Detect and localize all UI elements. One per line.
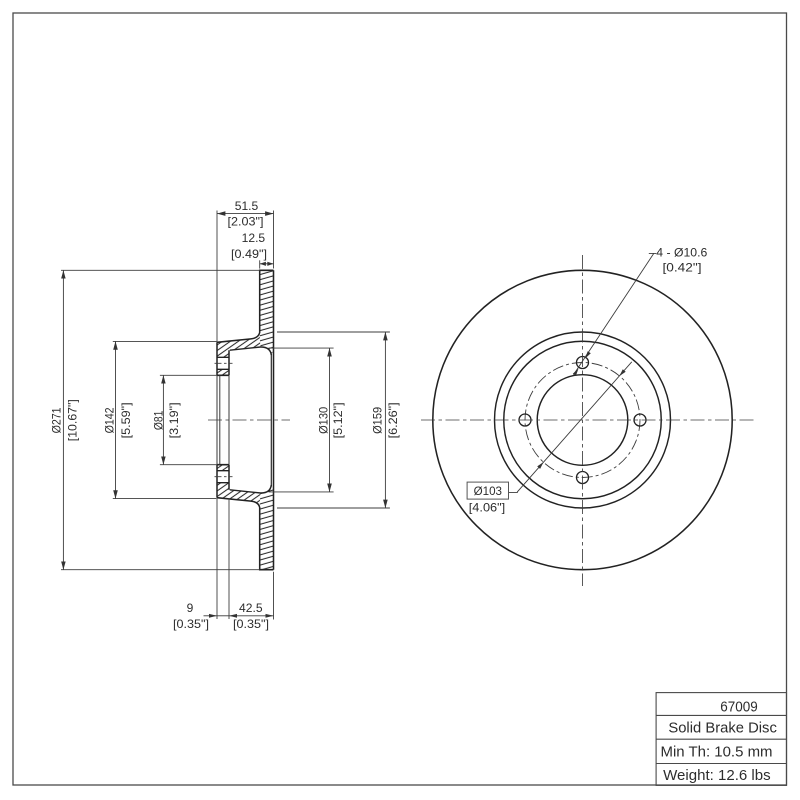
bolt hole edges bottom	[217, 471, 229, 483]
svg-text:[6.26"]: [6.26"]	[386, 402, 400, 438]
extension Ø159 bottom	[277, 507, 390, 509]
extension line mounting face x217	[216, 211, 218, 343]
svg-text:[0.42"]: [0.42"]	[663, 260, 702, 274]
svg-text:Ø159: Ø159	[370, 407, 384, 434]
disc outboard inner edge line	[270, 354, 272, 487]
leader 4-Ø10.6	[574, 253, 657, 374]
hatch hat and flange bottom	[217, 483, 261, 508]
svg-text:[0.35"]: [0.35"]	[173, 617, 209, 631]
flange circle Ø142	[504, 341, 662, 499]
extension Ø81 top	[160, 374, 217, 376]
svg-text:[5.59"]: [5.59"]	[119, 402, 133, 438]
extension line disc outboard x273.5	[273, 211, 275, 269]
svg-text:Min Th: 10.5 mm: Min Th: 10.5 mm	[661, 745, 773, 761]
bolt hole centerline bottom	[215, 476, 233, 478]
dimension Ø271	[62, 270, 64, 569]
leader Ø103	[509, 362, 632, 493]
svg-text:[5.12"]: [5.12"]	[331, 402, 345, 438]
arrows 42.5	[229, 614, 237, 618]
hatch flange top below bolt hole	[217, 369, 229, 375]
extension Ø81 bottom	[160, 464, 217, 466]
svg-text:12.5: 12.5	[242, 231, 266, 245]
svg-text:[4.06"]: [4.06"]	[469, 500, 506, 514]
extension Ø142 top	[113, 340, 217, 342]
bolt hole edges top	[217, 357, 229, 369]
dimension line 9 tail	[204, 615, 218, 617]
mounting face line through bore	[216, 375, 218, 464]
svg-text:51.5: 51.5	[235, 199, 259, 213]
dimension 12.5	[260, 263, 274, 265]
dimension Ø130	[329, 348, 331, 492]
svg-text:Solid Brake Disc: Solid Brake Disc	[668, 721, 777, 737]
extension Ø271 bottom	[61, 569, 260, 571]
section centerline	[208, 419, 290, 421]
bolt hole right	[634, 414, 646, 426]
hatch hat and flange top	[217, 333, 261, 358]
dimension Ø159	[384, 332, 386, 508]
extension Ø130 bottom	[269, 491, 334, 493]
bolt hole top	[577, 357, 589, 369]
svg-text:4 - Ø10.6: 4 - Ø10.6	[656, 246, 707, 260]
arrows 12.5	[260, 262, 266, 266]
label box Ø103	[467, 482, 508, 499]
dimension Ø142	[115, 341, 117, 498]
svg-text:[3.19"]: [3.19"]	[167, 402, 181, 438]
bolt hole centerline top	[215, 362, 233, 364]
bolt hole left	[519, 414, 531, 426]
hatch disc ring bottom	[260, 487, 274, 570]
dimension line 9 middle	[217, 615, 229, 617]
horizontal centerline	[421, 419, 757, 421]
hat outer circle Ø159	[495, 332, 671, 508]
bore silhouette line	[219, 375, 221, 464]
dimension Ø81	[162, 375, 164, 464]
disc outboard face	[273, 270, 275, 569]
svg-text:[0.49"]: [0.49"]	[231, 247, 267, 261]
outer diameter circle	[433, 270, 732, 569]
bolt circle Ø103 dash-dot	[525, 363, 640, 478]
svg-text:Weight: 12.6 lbs: Weight: 12.6 lbs	[663, 768, 771, 784]
extension line flange right x229	[228, 499, 230, 619]
svg-text:Ø142: Ø142	[103, 407, 117, 433]
hatch flange bottom above bolt hole	[217, 465, 229, 471]
dimension line 42.5	[229, 615, 274, 617]
svg-text:67009: 67009	[720, 700, 758, 716]
flange right face line through bore	[228, 375, 230, 464]
svg-text:[0.35"]: [0.35"]	[233, 617, 269, 631]
extension stub disc inboard x259.7	[259, 260, 261, 268]
svg-text:9: 9	[187, 601, 194, 615]
title block row line 3	[656, 763, 786, 765]
extension Ø130 top	[269, 347, 334, 349]
extension Ø271 top	[61, 269, 260, 271]
title block row line 1	[656, 714, 786, 716]
title block row line 2	[656, 738, 786, 740]
svg-text:Ø130: Ø130	[316, 407, 330, 434]
hatch disc ring top	[260, 270, 274, 353]
extension Ø142 bottom	[113, 498, 217, 500]
outline hat top inner surface	[230, 347, 271, 355]
svg-text:[2.03"]: [2.03"]	[228, 214, 264, 228]
extension Ø159 top	[277, 331, 390, 333]
flange left face segments	[216, 342, 218, 497]
svg-text:42.5: 42.5	[239, 601, 263, 615]
center bore circle Ø81	[537, 375, 628, 466]
vertical centerline	[582, 255, 584, 586]
svg-text:Ø271: Ø271	[50, 407, 64, 433]
outline hat bottom	[217, 498, 274, 570]
bore edges	[217, 375, 229, 464]
title block outline	[656, 693, 786, 786]
svg-text:Ø103: Ø103	[474, 484, 503, 498]
flange right face segments	[228, 350, 230, 490]
outline hat bottom inner surface	[230, 485, 271, 493]
svg-text:Ø81: Ø81	[151, 410, 165, 430]
svg-text:[10.67"]: [10.67"]	[65, 399, 79, 441]
dimension 51.5	[217, 213, 274, 215]
outline hat top	[217, 270, 274, 342]
arrow 9 left outside	[209, 614, 217, 618]
bolt hole bottom	[577, 472, 589, 484]
